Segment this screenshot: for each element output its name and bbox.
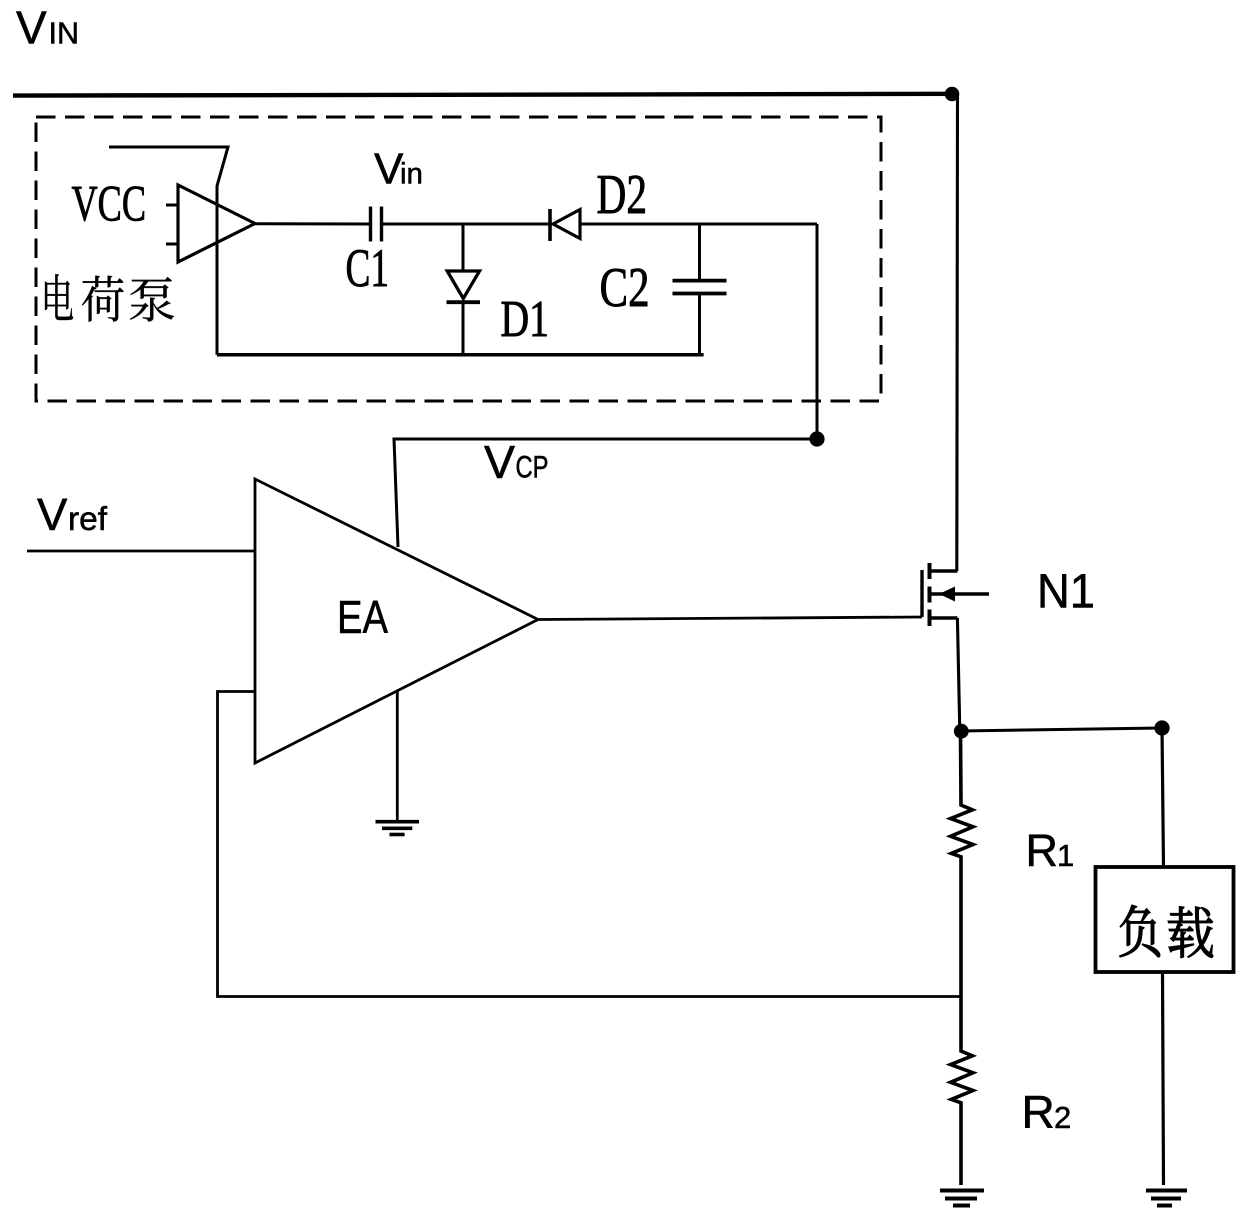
wire charge pump bottom rail: [217, 353, 704, 357]
wire load top: [1162, 728, 1164, 867]
wire drain: [955, 94, 959, 571]
diode D2: [550, 209, 580, 241]
label VCP: [484, 436, 549, 488]
wire output node: [960, 728, 1162, 731]
wire load bottom: [1163, 972, 1164, 1185]
label EA: [337, 591, 388, 643]
transistor N1: [922, 563, 989, 626]
svg-text:IN: IN: [49, 17, 80, 51]
svg-text:D1: D1: [501, 291, 550, 348]
resistor R1: [951, 731, 973, 997]
oscillator buffer U1: [178, 185, 255, 262]
svg-text:in: in: [400, 158, 423, 191]
svg-text:R: R: [1026, 825, 1059, 876]
wire oscillator output: [255, 222, 370, 225]
label Vref: [37, 489, 108, 540]
svg-text:R: R: [1022, 1086, 1055, 1138]
resistor R2: [951, 997, 973, 1186]
svg-text:CP: CP: [516, 449, 549, 485]
svg-text:VCC: VCC: [72, 176, 147, 232]
charge pump dashed box: [36, 117, 881, 401]
svg-text:D2: D2: [597, 164, 648, 226]
node source junction: [954, 724, 969, 739]
oscillator input stubs: [166, 205, 179, 244]
svg-text:ref: ref: [68, 501, 108, 538]
label VIN: [16, 2, 79, 54]
wire feedback: [218, 692, 962, 997]
capacitor C2: [673, 224, 727, 354]
wire oscillator supply: [109, 147, 228, 355]
wire EA output to gate: [538, 617, 922, 620]
svg-text:2: 2: [1054, 1100, 1071, 1135]
capacitor C1: [371, 207, 382, 242]
label R1: [1026, 825, 1075, 876]
svg-text:N1: N1: [1037, 566, 1095, 619]
node VIN-drain junction: [945, 87, 960, 102]
wire source: [957, 618, 959, 731]
ground load: [1146, 1191, 1187, 1206]
svg-text:EA: EA: [337, 591, 388, 643]
label Vin: [374, 145, 423, 194]
svg-text:V: V: [484, 436, 515, 488]
wire D2 to CP output: [580, 223, 817, 226]
svg-text:V: V: [16, 2, 47, 54]
wire VIN rail: [13, 94, 959, 96]
svg-text:C2: C2: [600, 257, 650, 319]
op-amp EA: [255, 479, 538, 763]
label load (fu zai): [1120, 905, 1213, 958]
label charge pump (dian he beng): [45, 274, 174, 322]
svg-text:V: V: [37, 489, 68, 540]
node VCP junction: [809, 431, 824, 446]
label R2: [1022, 1086, 1072, 1138]
wire Vref input: [27, 550, 255, 553]
wire CP output down: [816, 224, 819, 439]
node load junction: [1154, 720, 1169, 735]
wire C1 to D2: [381, 223, 550, 226]
ground R2: [940, 1191, 984, 1206]
svg-text:C1: C1: [346, 237, 390, 298]
diode D1: [447, 224, 481, 355]
load box: [1096, 867, 1234, 972]
wire EA ground pin: [396, 691, 399, 820]
svg-text:1: 1: [1057, 838, 1074, 873]
wire VCP: [394, 439, 817, 547]
ground EA: [376, 822, 420, 835]
